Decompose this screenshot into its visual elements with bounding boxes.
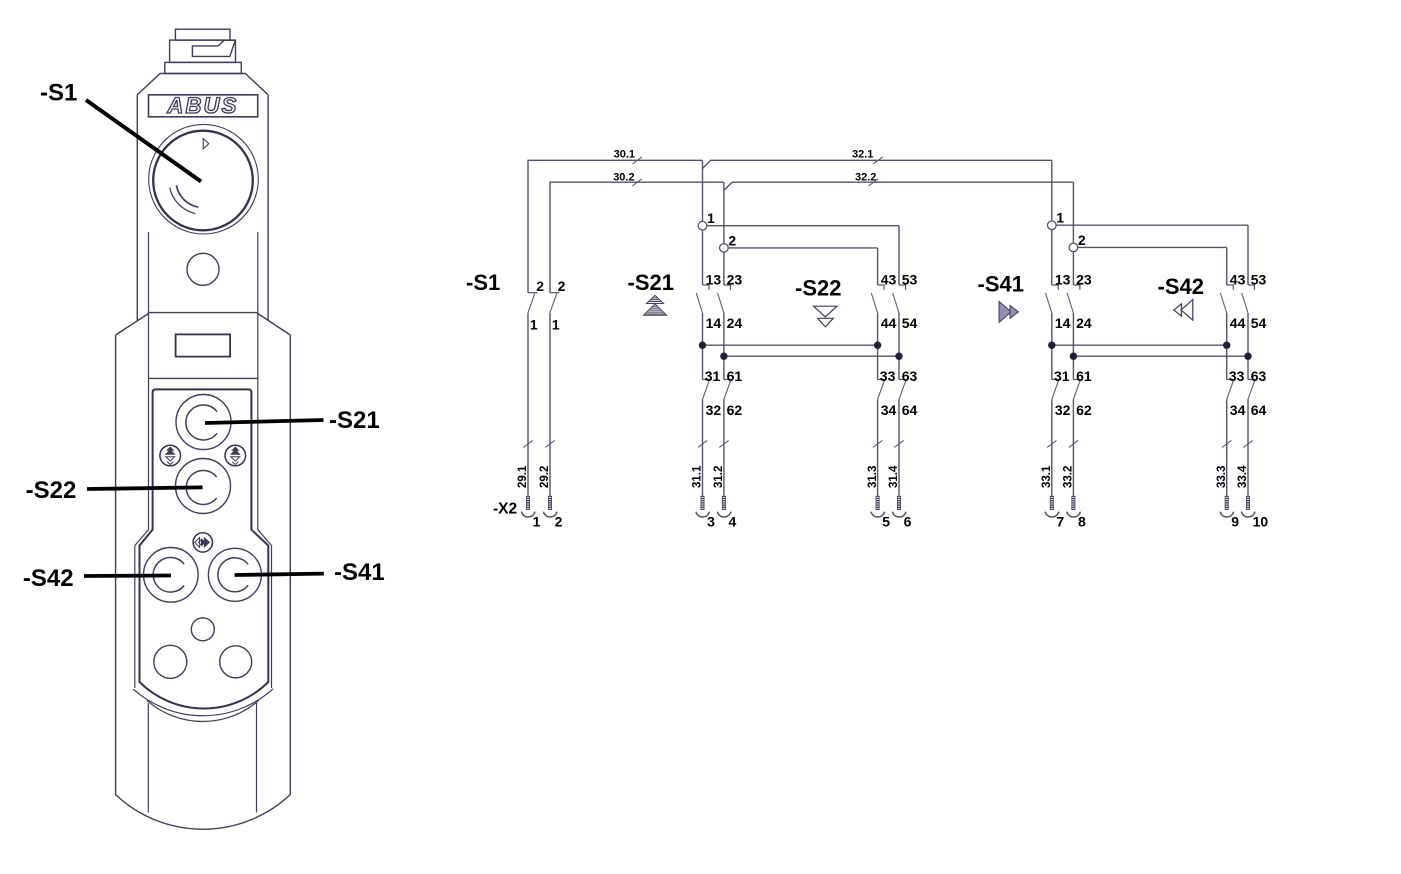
svg-text:-S42: -S42 — [23, 565, 74, 592]
icon -S22 double down triangle outline — [814, 306, 837, 327]
wire (node1 to contact13) — [702, 230, 704, 285]
svg-text:62: 62 — [1076, 402, 1092, 418]
svg-text:33.4: 33.4 — [1237, 465, 1249, 488]
NO contact 43-44 — [878, 285, 885, 290]
NC contact 61-62 — [724, 379, 731, 381]
NC contact 63-64 — [1248, 379, 1255, 381]
wire (node2 to contact23) — [723, 252, 725, 285]
svg-text:10: 10 — [1253, 514, 1269, 530]
wire slash 30.2 — [633, 179, 642, 186]
svg-text:63: 63 — [902, 368, 918, 384]
svg-text:-S41: -S41 — [978, 272, 1024, 297]
pendant lower right circle — [220, 646, 252, 678]
wire down to contact 43 — [1226, 247, 1228, 285]
svg-text:-S22: -S22 — [26, 477, 77, 504]
svg-text:34: 34 — [1230, 402, 1246, 418]
terminal ferrule 4 — [722, 496, 726, 510]
svg-text:14: 14 — [706, 315, 722, 331]
svg-text:53: 53 — [1251, 272, 1267, 288]
wire col1 mid — [1051, 313, 1053, 380]
svg-text:23: 23 — [1076, 272, 1092, 288]
svg-text:53: 53 — [902, 272, 918, 288]
button S22 outer circle — [176, 459, 231, 514]
wire slash 32.1 — [873, 157, 882, 164]
wire col4 mid — [1247, 313, 1249, 380]
svg-text:61: 61 — [1076, 368, 1092, 384]
wire to terminal — [702, 399, 704, 496]
svg-text:30.1: 30.1 — [614, 149, 635, 161]
icon -S42 rewind left double triangle outline — [1174, 300, 1193, 321]
svg-text:2: 2 — [555, 514, 563, 530]
svg-text:33.1: 33.1 — [1041, 465, 1053, 488]
wire node2 to col3 — [1078, 246, 1227, 248]
svg-text:-S21: -S21 — [329, 407, 380, 434]
NC contact 31-32 — [703, 379, 710, 381]
svg-text:2: 2 — [558, 278, 566, 294]
NO contact 43-44 — [1227, 285, 1234, 290]
junction dot — [720, 353, 727, 360]
pendant cable gland tier 2 — [170, 40, 236, 62]
cross wire row B — [724, 355, 899, 357]
svg-text:34: 34 — [881, 402, 897, 418]
pendant neck bottom horizontal — [149, 377, 258, 379]
wire down to contact 43 — [877, 248, 879, 285]
pendant lower left circle — [154, 645, 187, 678]
wire to terminal — [1072, 399, 1074, 496]
wire slash (lower) — [1069, 440, 1078, 447]
junction dot — [1223, 342, 1230, 349]
NO contact 53-54 — [1248, 285, 1255, 290]
svg-text:33: 33 — [880, 368, 896, 384]
node 1 — [698, 221, 707, 230]
button S42 outer circle — [144, 548, 199, 603]
wire node1 to col4 — [707, 225, 899, 227]
icon left/right arrows — [193, 533, 212, 552]
S1 knob pointer triangle — [203, 139, 209, 149]
svg-text:43: 43 — [881, 272, 897, 288]
icon -S21 double up triangle hatched — [644, 295, 667, 315]
wire 32.2 with branch jog — [724, 182, 1074, 190]
pendant left shoulder diagonal — [116, 314, 149, 336]
wire col3 mid — [1226, 313, 1228, 380]
svg-text:31: 31 — [1054, 368, 1070, 384]
icon -S41 fast right double triangle filled — [999, 301, 1018, 322]
svg-text:5: 5 — [882, 514, 890, 530]
wire slash (lower) — [1047, 440, 1056, 447]
svg-text:31.2: 31.2 — [713, 466, 725, 488]
S1 wire slash — [523, 440, 532, 447]
svg-text:-S1: -S1 — [466, 270, 500, 295]
terminal ferrule 9 — [1225, 496, 1229, 510]
svg-text:62: 62 — [727, 402, 743, 418]
svg-text:43: 43 — [1230, 272, 1246, 288]
wire (vertical, col1 top) — [1051, 160, 1053, 221]
terminal ferrule 7 — [1050, 496, 1054, 510]
svg-text:13: 13 — [1055, 272, 1071, 288]
svg-text:1: 1 — [707, 210, 715, 226]
NC contact 33-34 — [878, 379, 885, 381]
svg-text:64: 64 — [1251, 402, 1267, 418]
S1 NC contact 2 — [550, 292, 560, 294]
pendant inner shell right vertical — [257, 232, 259, 530]
svg-text:54: 54 — [902, 315, 918, 331]
NC contact 31-32 — [1052, 379, 1059, 381]
terminal ferrule 5 — [876, 496, 880, 510]
S1 wire lower — [527, 313, 529, 496]
svg-text:54: 54 — [1251, 315, 1267, 331]
svg-text:33: 33 — [1229, 368, 1245, 384]
pendant cable gland tier 1 (top) — [175, 29, 230, 40]
svg-text:32: 32 — [1055, 402, 1071, 418]
pendant cable clip (zigzag) — [192, 40, 235, 56]
NO contact 23-24 — [1073, 285, 1080, 290]
svg-text:1: 1 — [530, 317, 538, 333]
svg-text:29.2: 29.2 — [539, 466, 551, 488]
leader line -S21 — [205, 420, 324, 423]
NO contact 13-14 — [703, 285, 710, 290]
wire 32.1 with branch jog — [703, 160, 1052, 168]
svg-text:6: 6 — [904, 514, 912, 530]
button S21 inner arc — [186, 405, 217, 440]
svg-text:32: 32 — [706, 402, 722, 418]
svg-text:31.3: 31.3 — [867, 466, 879, 488]
wire (node2 to contact23) — [1072, 252, 1074, 285]
junction dot — [1048, 342, 1055, 349]
svg-text:44: 44 — [1230, 315, 1246, 331]
button S21 outer circle — [176, 395, 231, 450]
wire slash (lower) — [1222, 440, 1231, 447]
svg-text:31.4: 31.4 — [888, 465, 900, 488]
wire (vertical, col2 top) — [723, 182, 725, 243]
wire slash (lower) — [1243, 440, 1252, 447]
svg-text:ABUS: ABUS — [166, 93, 238, 118]
svg-text:-S42: -S42 — [1158, 274, 1204, 299]
node 2 — [720, 244, 729, 253]
wire slash (lower) — [894, 440, 903, 447]
NO contact 23-24 — [724, 285, 731, 290]
pendant display window — [176, 334, 231, 356]
pendant outer right edge — [289, 335, 291, 794]
junction dot — [874, 342, 881, 349]
svg-text:1: 1 — [1056, 210, 1064, 226]
svg-text:-S22: -S22 — [795, 276, 841, 301]
pendant shell lower left vertical — [134, 546, 136, 689]
wire (vertical, col2 top) — [1072, 182, 1074, 243]
button S41 outer circle — [208, 548, 261, 601]
button S22 inner arc — [186, 471, 216, 505]
svg-text:29.1: 29.1 — [517, 465, 529, 488]
pendant shell right waist flare — [258, 530, 272, 546]
svg-text:33.3: 33.3 — [1216, 466, 1228, 488]
icon up/down arrows left — [160, 445, 181, 466]
wire down to contact 53 — [1247, 225, 1249, 285]
wire 30.2 — [550, 182, 724, 293]
pendant right shoulder diagonal — [258, 314, 291, 336]
pendant cable gland tier 3 — [165, 62, 242, 73]
wire to terminal — [723, 399, 725, 496]
wire slash 32.2 — [869, 179, 878, 186]
junction dot — [895, 353, 902, 360]
pendant small circle below knob — [187, 253, 219, 285]
wire to terminal — [898, 399, 900, 496]
svg-text:61: 61 — [727, 368, 743, 384]
wire down to contact 53 — [898, 226, 900, 285]
svg-text:32.1: 32.1 — [852, 149, 873, 161]
terminal ferrule 8 — [1071, 496, 1075, 510]
NO contact 13-14 — [1052, 285, 1059, 290]
svg-text:-S41: -S41 — [334, 559, 385, 586]
pendant small middle circle — [191, 618, 214, 641]
svg-text:31.1: 31.1 — [692, 465, 704, 488]
pendant shell lower right vertical — [271, 546, 273, 689]
pendant inner shell left vertical — [148, 232, 150, 530]
junction dot — [699, 342, 706, 349]
wire col4 mid — [898, 313, 900, 380]
leader line -S22 — [87, 487, 203, 489]
wire slash (lower) — [698, 440, 707, 447]
terminal ferrule 3 — [701, 496, 705, 510]
terminal ferrule 1 — [526, 496, 530, 510]
node 2 — [1069, 243, 1078, 252]
svg-text:4: 4 — [729, 514, 737, 530]
pendant front strip right vertical — [256, 703, 258, 813]
S1 wire lower — [549, 313, 551, 496]
NC contact 33-34 — [1227, 379, 1234, 381]
pendant outer left edge — [115, 335, 117, 794]
wire 30.1 — [528, 160, 703, 292]
leader line -S42 — [84, 574, 171, 578]
svg-text:31: 31 — [705, 368, 721, 384]
wire col2 mid — [1072, 313, 1074, 380]
wire col1 mid — [702, 313, 704, 380]
pendant shell left waist flare — [135, 530, 149, 546]
svg-text:63: 63 — [1251, 368, 1267, 384]
terminal ferrule 10 — [1246, 496, 1250, 510]
svg-text:1: 1 — [552, 317, 560, 333]
wire to terminal — [1247, 399, 1249, 496]
NC contact 63-64 — [899, 379, 906, 381]
junction dot — [1244, 353, 1251, 360]
ABUS logo frame — [149, 95, 258, 117]
junction dot — [1070, 353, 1077, 360]
wire slash (lower) — [873, 440, 882, 447]
pendant head bottom horizontal — [149, 312, 258, 314]
svg-text:1: 1 — [533, 514, 541, 530]
cross wire row A — [1052, 344, 1227, 346]
svg-text:-S1: -S1 — [40, 80, 77, 107]
pendant front strip top arc — [147, 700, 259, 721]
svg-text:44: 44 — [881, 315, 897, 331]
svg-text:30.2: 30.2 — [613, 172, 634, 184]
svg-text:3: 3 — [707, 514, 715, 530]
svg-text:24: 24 — [1076, 315, 1092, 331]
button S42 inner arc — [153, 558, 184, 593]
svg-text:33.2: 33.2 — [1063, 466, 1075, 488]
cross wire row B — [1073, 355, 1248, 357]
S1 knob inner arc small — [176, 185, 198, 207]
NC contact 61-62 — [1073, 379, 1080, 381]
node 1 — [1048, 221, 1057, 230]
wire node1 to col4 — [1056, 224, 1248, 226]
icon up/down arrows right — [225, 445, 246, 466]
svg-text:14: 14 — [1055, 315, 1071, 331]
svg-text:7: 7 — [1056, 514, 1064, 530]
NO contact 53-54 — [899, 285, 906, 290]
leader line -S1 — [86, 100, 201, 182]
wire to terminal — [877, 399, 879, 496]
svg-text:9: 9 — [1231, 514, 1239, 530]
svg-text:2: 2 — [728, 232, 736, 248]
svg-text:64: 64 — [902, 402, 918, 418]
pendant button panel border — [140, 389, 269, 708]
svg-text:13: 13 — [706, 272, 722, 288]
pendant head outer right edge — [267, 95, 269, 320]
wire col3 mid — [877, 313, 879, 380]
wire (vertical, col1 top) — [702, 160, 704, 221]
svg-text:32.2: 32.2 — [855, 172, 876, 184]
S1 knob outer thin ring — [149, 124, 259, 234]
pendant head outer left edge — [136, 95, 138, 321]
wire node2 to col3 — [728, 247, 877, 249]
terminal ferrule 6 — [897, 496, 901, 510]
wire to terminal — [1226, 399, 1228, 496]
button S41 inner arc — [218, 558, 248, 592]
S1 wire slash — [545, 440, 554, 447]
svg-text:24: 24 — [727, 315, 743, 331]
leader line -S41 — [235, 574, 324, 575]
S1 NC contact 1 — [528, 292, 538, 294]
svg-text:8: 8 — [1078, 514, 1086, 530]
cross wire row A — [703, 344, 878, 346]
terminal ferrule 2 — [548, 496, 552, 510]
wire slash 30.1 — [633, 157, 642, 164]
wire (node1 to contact13) — [1051, 230, 1053, 286]
svg-text:23: 23 — [727, 272, 743, 288]
pendant outer bottom arc — [115, 794, 290, 829]
wire to terminal — [1051, 399, 1053, 496]
S1 knob inner arc large — [170, 188, 196, 214]
svg-text:-X2: -X2 — [493, 500, 517, 517]
S1 knob main circle — [153, 131, 253, 231]
pendant shell bottom arc — [133, 689, 273, 716]
wire slash (lower) — [719, 440, 728, 447]
svg-text:2: 2 — [536, 278, 544, 294]
pendant head top chamfered edge — [137, 74, 268, 95]
svg-text:-S21: -S21 — [628, 270, 674, 295]
svg-text:2: 2 — [1078, 232, 1086, 248]
pendant front strip left vertical — [147, 703, 149, 813]
wire col2 mid — [723, 313, 725, 380]
